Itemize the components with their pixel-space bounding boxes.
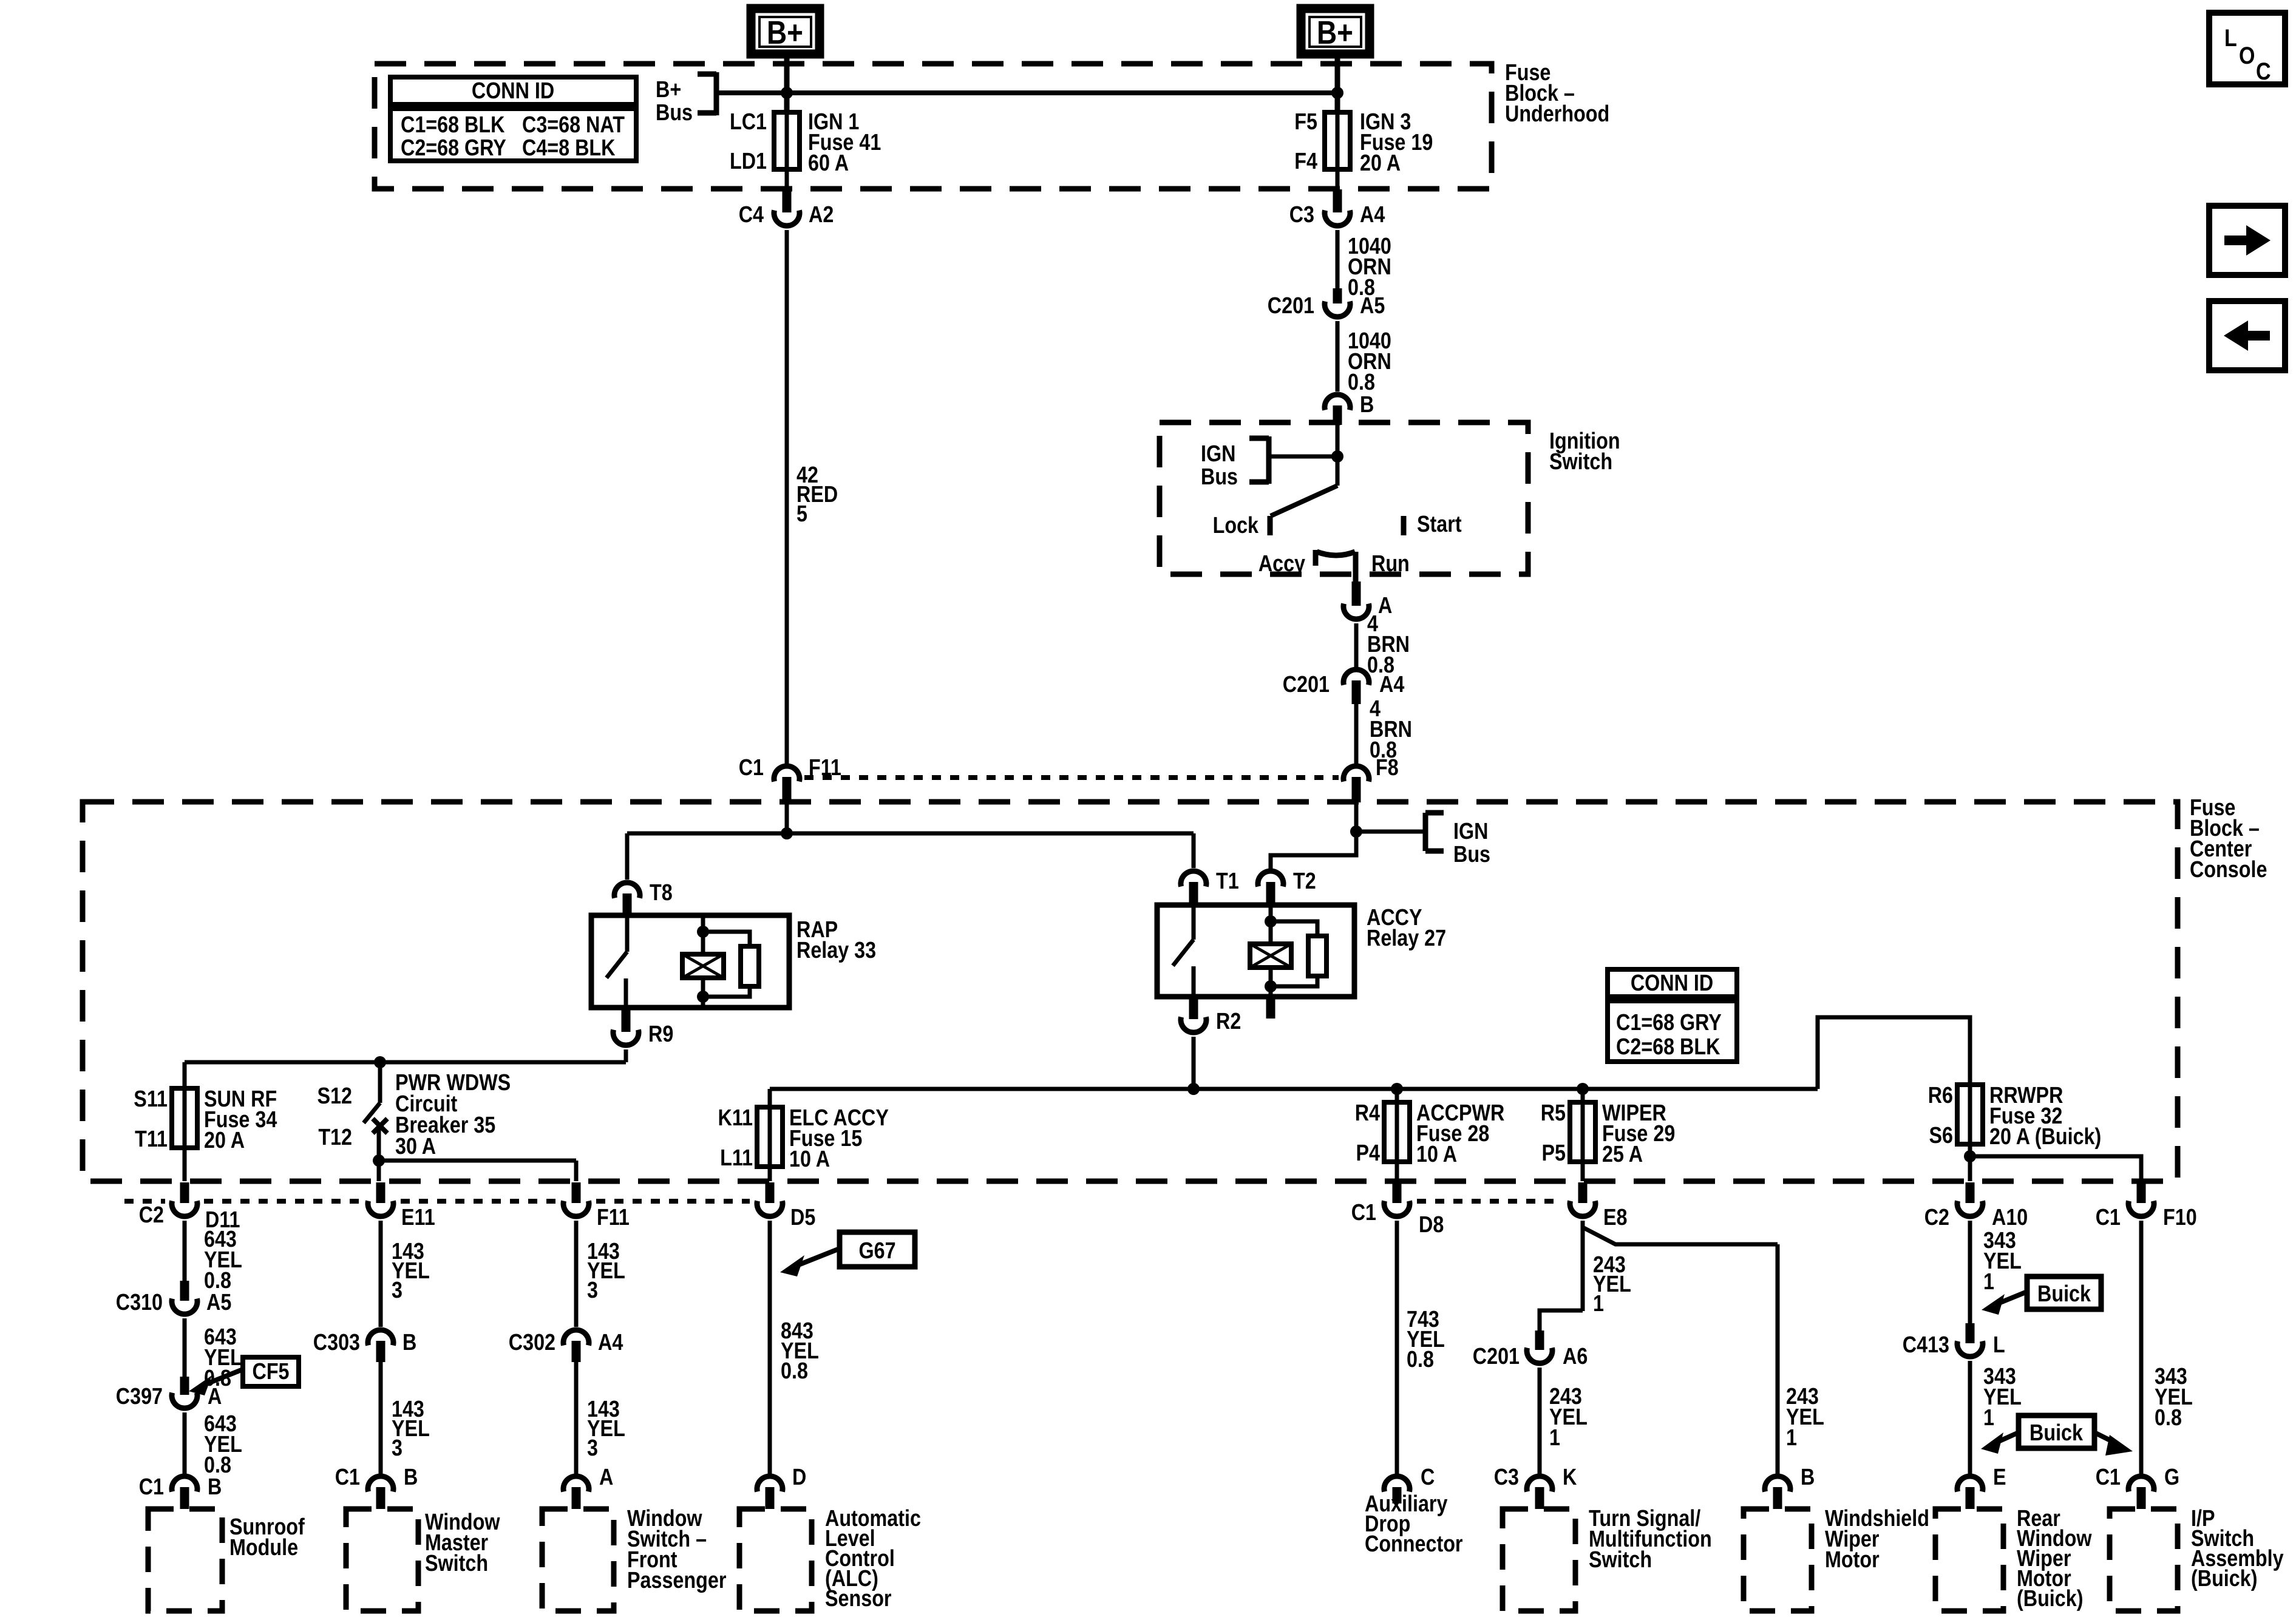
svg-text:B+: B+ <box>656 77 681 103</box>
connector C303/B labels <box>313 1330 417 1355</box>
connector A (front passenger) <box>563 1465 613 1509</box>
connector R2 <box>1181 997 1241 1034</box>
RAP suppression resistor <box>703 932 759 997</box>
junction RAP coil bottom <box>697 991 709 1003</box>
fuse 41 value label <box>808 109 881 176</box>
svg-text:20 A: 20 A <box>1360 151 1401 176</box>
svg-text:F8: F8 <box>1376 755 1399 781</box>
junction ACCY coil top <box>1265 915 1277 927</box>
svg-text:E11: E11 <box>401 1205 435 1230</box>
connector C201/A4 labels <box>1283 672 1405 697</box>
wire branch down to wiper motor <box>1776 1244 1780 1474</box>
module Rear Window Wiper Motor box <box>1935 1509 2003 1611</box>
svg-text:F4: F4 <box>1294 149 1317 174</box>
wire F8 jog to T2 <box>1271 832 1356 869</box>
svg-text:L: L <box>1993 1332 2005 1358</box>
wire fuse34 to bottom <box>183 1148 187 1181</box>
fuse 34 pin labels <box>134 1086 168 1152</box>
ACCY coil bottom wire <box>1269 968 1273 997</box>
svg-text:C1: C1 <box>2096 1205 2121 1230</box>
RAP coil riser <box>701 915 705 954</box>
fuse block center console dashed box <box>83 802 2178 1181</box>
junction ACCY coil bottom <box>1265 980 1277 992</box>
connector C201/A4 <box>1343 670 1369 704</box>
svg-text:C397: C397 <box>116 1384 163 1409</box>
page arrow left box <box>2209 301 2285 370</box>
connector C1/B (window master) labels <box>335 1465 418 1490</box>
connector F8 <box>1343 755 1399 802</box>
svg-text:P4: P4 <box>1356 1141 1380 1166</box>
wire F8 into console <box>1354 802 1359 833</box>
svg-text:Switch: Switch <box>1589 1547 1652 1573</box>
svg-text:T8: T8 <box>650 880 673 906</box>
callout CF5 arrow <box>189 1369 243 1395</box>
wire label 4 BRN 0.8 (lower) <box>1370 696 1412 763</box>
junction F8 / IGN bus <box>1350 825 1362 838</box>
breaker 35 value label <box>395 1070 511 1159</box>
ignition switch dashed box <box>1160 422 1528 574</box>
connector C1/F10 labels <box>2096 1205 2197 1230</box>
ACCY coil ground stub <box>1266 997 1275 1019</box>
connector C1/F11 labels <box>739 755 841 781</box>
module ALC label <box>825 1506 921 1612</box>
fuse 15 pin labels <box>718 1105 753 1171</box>
connector C3/K labels <box>1494 1465 1577 1490</box>
wire label 4 BRN 0.8 (upper) <box>1367 611 1410 678</box>
svg-text:C1=68 BLK: C1=68 BLK <box>401 112 505 138</box>
svg-text:K11: K11 <box>718 1105 753 1131</box>
wire A10 down to C413 <box>1968 1221 1972 1326</box>
RAP coil bottom wire <box>701 978 705 1008</box>
svg-text:A2: A2 <box>809 202 834 228</box>
circuit breaker PWR WDWS 35 <box>364 1062 387 1162</box>
svg-text:C413: C413 <box>1903 1332 1949 1358</box>
svg-text:D: D <box>792 1465 806 1490</box>
connector C1/G <box>2128 1476 2154 1509</box>
module Window Master Switch box <box>346 1509 418 1611</box>
svg-text:10 A: 10 A <box>1416 1142 1457 1167</box>
svg-text:1: 1 <box>1983 1405 1994 1431</box>
connector B (ignition switch feed) <box>1325 392 1374 425</box>
svg-text:G67: G67 <box>858 1238 895 1264</box>
wire B+2 to fuse 19 <box>1335 54 1340 113</box>
svg-text:D5: D5 <box>790 1205 815 1230</box>
svg-text:S6: S6 <box>1929 1123 1953 1148</box>
fuse 29 pin labels <box>1541 1100 1566 1166</box>
connector C1/B (window master) <box>368 1476 393 1509</box>
svg-text:1: 1 <box>1593 1291 1604 1317</box>
svg-text:R4: R4 <box>1355 1100 1380 1126</box>
module Sunroof Module box <box>148 1509 222 1611</box>
wire C201 to B <box>1336 321 1340 392</box>
callout Buick arrow 2 left <box>1981 1432 2019 1454</box>
wire R2 down <box>1192 1037 1196 1089</box>
svg-text:LD1: LD1 <box>730 149 767 174</box>
wire fuse41 to C4 <box>785 169 789 192</box>
svg-text:F10: F10 <box>2163 1205 2197 1230</box>
svg-text:20 A: 20 A <box>204 1128 245 1153</box>
module Turn Signal box <box>1503 1509 1575 1611</box>
svg-text:R2: R2 <box>1216 1009 1241 1034</box>
connector C302/A4 <box>563 1330 589 1362</box>
svg-text:10 A: 10 A <box>789 1147 830 1172</box>
svg-text:1: 1 <box>1983 1269 1994 1295</box>
svg-text:B+: B+ <box>1317 15 1353 51</box>
ACCY coil riser <box>1269 905 1273 944</box>
svg-text:B: B <box>404 1465 418 1490</box>
svg-text:C4=8 BLK: C4=8 BLK <box>522 135 616 161</box>
fuse SUN RF Fuse 34 20A <box>172 1088 197 1148</box>
wire step to fuse 32 <box>1818 1017 1970 1089</box>
junction R2 output <box>1187 1083 1200 1095</box>
module Window Switch Front Passenger box <box>542 1509 614 1611</box>
wire breaker output down <box>377 1161 381 1181</box>
svg-text:IGN: IGN <box>1201 441 1235 467</box>
fuse ELC ACCY Fuse 15 10A <box>757 1107 783 1167</box>
module Window Master Switch label <box>425 1510 500 1576</box>
wire T8 riser <box>625 833 630 880</box>
svg-text:B: B <box>402 1330 416 1355</box>
wire label 42 RED 5 <box>796 463 838 527</box>
svg-text:C1: C1 <box>739 755 764 781</box>
svg-text:20 A (Buick): 20 A (Buick) <box>1989 1124 2101 1150</box>
svg-text:0.8: 0.8 <box>2155 1405 2182 1431</box>
svg-text:Buick: Buick <box>2029 1420 2084 1446</box>
connector B (windshield wiper motor) <box>1765 1465 1815 1509</box>
relay ACCY label <box>1367 905 1446 951</box>
callout Buick box 1 <box>2027 1276 2101 1309</box>
connector row dotted line C1 (console top) <box>804 775 1339 780</box>
connector C303/B <box>368 1330 393 1362</box>
wire F11 to C302 <box>574 1221 579 1327</box>
connector T2 <box>1258 869 1316 906</box>
module IP Switch label <box>2191 1506 2284 1592</box>
connector C3/A4 <box>1325 189 1350 226</box>
relay RAP label <box>796 917 876 963</box>
svg-text:A5: A5 <box>1360 293 1385 319</box>
wire T1 riser <box>1192 833 1196 868</box>
wire E8 down <box>1581 1221 1585 1311</box>
svg-text:L: L <box>2224 25 2237 52</box>
svg-text:5: 5 <box>796 501 807 527</box>
svg-text:T12: T12 <box>318 1125 352 1150</box>
connector C310/A5 <box>172 1281 197 1314</box>
wire D5 to D alc <box>768 1221 772 1474</box>
svg-text:3: 3 <box>587 1278 598 1303</box>
connector R9 <box>613 1008 673 1047</box>
connector C (aux drop) <box>1384 1465 1435 1503</box>
connector C201/A6 labels <box>1473 1344 1588 1369</box>
fuse RRWPR Fuse 32 20A <box>1957 1085 1983 1144</box>
svg-text:Underhood: Underhood <box>1505 101 1609 127</box>
svg-text:T11: T11 <box>135 1127 168 1152</box>
wire fuse 32 output <box>1968 1144 1972 1181</box>
ACCY suppression resistor <box>1271 921 1326 986</box>
connector C413/L labels <box>1903 1332 2005 1358</box>
wire label 243 YEL 1 (A6) <box>1549 1384 1588 1451</box>
connector C1/B (sunroof) labels <box>139 1474 222 1500</box>
wire R9 down <box>624 1049 628 1062</box>
wire label 143 YEL 3 (3) <box>587 1239 625 1303</box>
fuse 28 pin labels <box>1355 1100 1380 1166</box>
wire C397 to C1/B sunroof <box>183 1412 187 1474</box>
wire Run to A <box>1354 580 1358 584</box>
connector C302/A4 labels <box>509 1330 623 1355</box>
ignition switch blade <box>1271 456 1337 516</box>
RAP switch contact <box>606 915 627 1008</box>
fuse block underhood label <box>1505 60 1609 127</box>
svg-text:60 A: 60 A <box>808 151 849 176</box>
svg-text:Connector: Connector <box>1365 1531 1463 1557</box>
fuse IGN 1 Fuse 41 60A <box>774 112 800 169</box>
module Sunroof label <box>229 1514 305 1561</box>
connector T1 <box>1181 869 1239 906</box>
svg-text:A6: A6 <box>1563 1344 1588 1369</box>
wire label 1040 ORN 0.8 (lower) <box>1348 328 1391 395</box>
svg-text:C201: C201 <box>1268 293 1314 319</box>
callout G67 box <box>840 1232 915 1267</box>
module Windshield Wiper Motor label <box>1825 1506 1929 1573</box>
wire E11 to C303 <box>379 1221 383 1327</box>
svg-text:A: A <box>208 1384 222 1409</box>
aux drop connector label <box>1365 1491 1463 1557</box>
fuse 41 pin labels <box>730 109 767 174</box>
svg-text:3: 3 <box>392 1278 402 1303</box>
svg-text:R6: R6 <box>1928 1083 1953 1108</box>
wire breaker to col3 <box>379 1159 576 1163</box>
wire label 243 YEL 1 (wiper) <box>1786 1384 1824 1451</box>
svg-text:A4: A4 <box>1379 672 1404 697</box>
svg-text:D8: D8 <box>1419 1212 1444 1238</box>
wire label 143 YEL 3 (2) <box>392 1397 430 1461</box>
svg-text:T1: T1 <box>1216 869 1239 894</box>
svg-text:C1: C1 <box>139 1474 164 1500</box>
wire to fuse 28 <box>1395 1089 1399 1102</box>
connector C4/A2 <box>774 189 800 226</box>
connector C397/A <box>172 1377 197 1408</box>
svg-text:Accy: Accy <box>1258 551 1305 577</box>
svg-text:C4: C4 <box>739 202 764 228</box>
svg-text:S11: S11 <box>134 1086 168 1112</box>
wire fuse28 to bottom <box>1395 1162 1399 1181</box>
module Rear Window Wiper label <box>2017 1506 2092 1612</box>
connector C2/D11 labels <box>139 1202 240 1233</box>
svg-text:F11: F11 <box>809 755 841 781</box>
connector C201/A5 <box>1325 288 1350 317</box>
wire C303 to C1/B master <box>379 1362 383 1474</box>
svg-text:Start: Start <box>1417 512 1462 537</box>
connector F11 (console bottom) <box>563 1182 630 1230</box>
connector C3/K <box>1527 1476 1552 1509</box>
svg-text:A4: A4 <box>1360 202 1385 228</box>
svg-text:C3=68 NAT: C3=68 NAT <box>522 112 625 138</box>
svg-text:Relay 27: Relay 27 <box>1367 926 1446 951</box>
svg-text:A4: A4 <box>598 1330 623 1355</box>
callout CF5 box <box>243 1357 299 1386</box>
svg-text:B+: B+ <box>767 15 803 51</box>
wire fuse15 to bottom <box>768 1167 772 1181</box>
connector E8 <box>1570 1182 1628 1230</box>
svg-text:Module: Module <box>229 1535 298 1561</box>
ignition Lock contact <box>1213 513 1270 538</box>
wire label 143 YEL 3 (4) <box>587 1397 625 1461</box>
svg-text:A10: A10 <box>1992 1205 2028 1230</box>
connector C201/A6 <box>1527 1331 1552 1363</box>
wire B+1 to fuse 41 <box>784 54 790 113</box>
svg-text:C: C <box>2256 58 2271 85</box>
wire B+ bus horizontal <box>716 90 1337 95</box>
connector E (rear wiper) <box>1957 1465 2006 1509</box>
connector A (below ignition switch) <box>1343 581 1392 619</box>
svg-text:C1: C1 <box>1351 1200 1376 1225</box>
connector row dotted line (left group) <box>124 1199 750 1204</box>
fuse 29 value label <box>1602 1100 1675 1167</box>
svg-text:P5: P5 <box>1541 1141 1566 1166</box>
wire C413 to E rear <box>1968 1361 1972 1474</box>
svg-text:A: A <box>1378 593 1392 619</box>
svg-text:IGN: IGN <box>1453 819 1488 844</box>
wire to fuse 15 <box>768 1089 772 1107</box>
svg-text:Passenger: Passenger <box>627 1568 727 1593</box>
svg-text:C1=68 GRY: C1=68 GRY <box>1616 1010 1722 1036</box>
fuse block center console label <box>2190 795 2267 883</box>
ACCY coil <box>1250 944 1291 968</box>
ignition Start contact <box>1404 512 1462 537</box>
svg-text:C2: C2 <box>1924 1205 1949 1230</box>
svg-text:Switch: Switch <box>1549 449 1612 475</box>
connector C397/A labels <box>116 1384 222 1409</box>
svg-text:A: A <box>599 1465 613 1490</box>
CONN ID table (console) <box>1608 969 1737 1062</box>
wire label 343 YEL 0.8 <box>2155 1364 2193 1431</box>
ignition Accy-Run wiper arc <box>1317 552 1355 555</box>
connector C1/F11 <box>774 766 800 802</box>
svg-text:Bus: Bus <box>656 100 693 126</box>
svg-text:C303: C303 <box>313 1330 360 1355</box>
connector C1/B (sunroof) <box>172 1476 197 1509</box>
wire label 243 YEL 1 (E8) <box>1593 1252 1631 1317</box>
svg-text:3: 3 <box>392 1436 402 1461</box>
connector C1/D8 <box>1384 1182 1410 1216</box>
svg-text:E8: E8 <box>1603 1205 1628 1230</box>
callout Buick box 2 <box>2019 1415 2094 1448</box>
wire label 643 YEL 0.8 (2) <box>204 1324 242 1391</box>
svg-text:Lock: Lock <box>1213 513 1259 538</box>
wire A to C201/A4 <box>1354 623 1359 668</box>
wire to fuse 29 <box>1581 1089 1585 1102</box>
junction left trunk / relay feed <box>781 827 793 839</box>
module Window Switch FP label <box>627 1506 727 1593</box>
wire accessory distribution horizontal <box>770 1087 1818 1091</box>
svg-text:C1: C1 <box>2096 1465 2121 1490</box>
svg-text:Buick: Buick <box>2037 1281 2091 1307</box>
junction fuse 32 output <box>1964 1150 1976 1162</box>
svg-text:E: E <box>1993 1465 2006 1490</box>
fuse 19 value label <box>1360 109 1433 176</box>
svg-text:1: 1 <box>1786 1425 1797 1451</box>
svg-text:G: G <box>2164 1465 2179 1490</box>
relay ACCY Relay 27 box <box>1157 905 1354 997</box>
relay RAP Relay 33 box <box>591 915 789 1008</box>
svg-text:B: B <box>1360 392 1374 418</box>
fuse WIPER Fuse 29 25A <box>1570 1102 1595 1162</box>
svg-text:C310: C310 <box>116 1290 163 1315</box>
B+ Bus tap bracket <box>656 72 716 126</box>
svg-text:1: 1 <box>1549 1425 1560 1451</box>
junction B+ bus / right trunk <box>1331 87 1343 99</box>
connector C2/A10 labels <box>1924 1205 2028 1230</box>
breaker 35 pin labels <box>318 1083 352 1150</box>
svg-text:R9: R9 <box>648 1022 673 1047</box>
svg-text:T2: T2 <box>1293 869 1316 894</box>
svg-text:F11: F11 <box>597 1205 630 1230</box>
wire label 743 YEL 0.8 <box>1407 1307 1445 1372</box>
connector C2/A10 <box>1957 1182 1983 1216</box>
connector C310/A5 labels <box>116 1290 232 1315</box>
svg-text:C2: C2 <box>139 1202 164 1228</box>
svg-text:0.8: 0.8 <box>781 1358 808 1384</box>
callout G67 arrow <box>780 1249 840 1276</box>
module Windshield Wiper Motor box <box>1744 1509 1812 1611</box>
connector C1/G labels <box>2096 1465 2179 1490</box>
svg-text:O: O <box>2239 42 2255 69</box>
svg-text:0.8: 0.8 <box>1407 1347 1434 1372</box>
junction breaker feed <box>374 1056 386 1068</box>
connector C4/A2 labels <box>739 202 834 228</box>
ignition Accy contact <box>1258 550 1316 577</box>
module Turn Signal label <box>1589 1506 1712 1573</box>
junction RAP coil top <box>697 926 709 938</box>
IGN Bus tap bracket (ignition switch) <box>1201 436 1269 490</box>
connector D5 <box>757 1182 815 1230</box>
wire label 843 YEL 0.8 <box>781 1318 819 1384</box>
svg-text:L11: L11 <box>720 1145 753 1171</box>
wire jog to C201/A6 <box>1540 1310 1583 1331</box>
svg-text:F5: F5 <box>1294 109 1317 135</box>
wire C201/A6 to C3/K <box>1538 1368 1542 1474</box>
svg-text:25 A: 25 A <box>1602 1142 1643 1167</box>
fuse block underhood dashed box <box>375 64 1492 189</box>
svg-text:C201: C201 <box>1283 672 1330 697</box>
svg-text:3: 3 <box>587 1436 598 1461</box>
module IP Switch Assembly box <box>2110 1509 2178 1611</box>
svg-text:LC1: LC1 <box>730 109 767 135</box>
ACCY switch contact <box>1173 905 1194 997</box>
wire col3 down <box>574 1161 579 1181</box>
svg-text:CF5: CF5 <box>252 1359 289 1385</box>
fuse ACCPWR Fuse 28 10A <box>1384 1102 1410 1162</box>
svg-text:Sensor: Sensor <box>825 1586 892 1612</box>
connector D (ALC) <box>757 1465 806 1509</box>
wire label 143 YEL 3 (1) <box>392 1239 430 1303</box>
svg-text:C3: C3 <box>1494 1465 1519 1490</box>
page arrow right box <box>2209 206 2285 275</box>
wire label 1040 ORN 0.8 (upper) <box>1348 234 1391 300</box>
svg-text:B: B <box>208 1474 222 1500</box>
svg-text:Console: Console <box>2190 857 2267 883</box>
svg-text:C3: C3 <box>1289 202 1314 228</box>
connector C3/A4 labels <box>1289 202 1385 228</box>
fuse 15 value label <box>789 1105 889 1172</box>
svg-text:(Buick): (Buick) <box>2017 1586 2083 1612</box>
svg-text:Bus: Bus <box>1453 842 1490 867</box>
connector C201/A5 labels <box>1268 293 1385 319</box>
svg-text:C2=68 BLK: C2=68 BLK <box>1616 1034 1720 1060</box>
wire F11 into console <box>785 802 789 835</box>
LOC legend box <box>2209 13 2285 85</box>
fuse 32 pin labels <box>1928 1083 1953 1148</box>
fuse 32 value label <box>1989 1083 2101 1150</box>
